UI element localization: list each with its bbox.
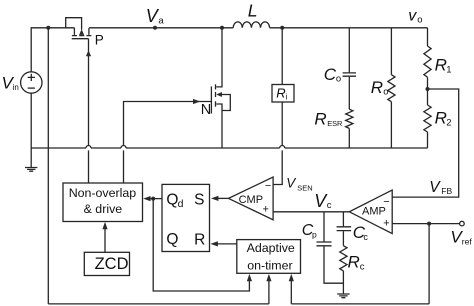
- svg-text:V: V: [429, 179, 441, 196]
- body arrow (points up, PMOS): [79, 29, 84, 35]
- svg-text:1: 1: [446, 65, 451, 76]
- svg-text:& drive: & drive: [84, 202, 123, 216]
- wire on-timer output to R with arrow: [213, 243, 237, 245]
- wire VFB from divider to AMP-: [392, 89, 459, 197]
- terminal Vref open circle: [460, 221, 465, 226]
- comparator CMP: [229, 177, 274, 220]
- svg-text:P: P: [95, 32, 104, 47]
- inductor L: [222, 22, 282, 28]
- svg-text:o: o: [336, 74, 341, 85]
- svg-text:Adaptive: Adaptive: [247, 241, 295, 255]
- svg-text:ESR: ESR: [327, 119, 342, 128]
- wire Vin loop bottom to on-timer: [48, 303, 269, 305]
- box ZCD: [84, 252, 129, 275]
- flip-flop box: [162, 184, 210, 251]
- op-amp AMP: [349, 190, 392, 234]
- wire long left feedback vertical: [47, 28, 49, 304]
- svg-text:p: p: [312, 229, 317, 239]
- svg-text:R: R: [371, 78, 383, 97]
- capacitor Cp: [323, 212, 325, 242]
- svg-text:R: R: [348, 252, 360, 271]
- wire P-drive into box: [88, 150, 90, 183]
- svg-text:R: R: [314, 109, 326, 128]
- capacitor Co: [348, 28, 350, 73]
- transistor P (PMOS): [66, 18, 104, 146]
- node Vref junction dot: [427, 222, 431, 226]
- svg-text:+: +: [383, 218, 389, 230]
- node Ri-top junction dot: [280, 26, 284, 30]
- svg-text:−: −: [265, 180, 271, 192]
- hop P-drive over rail: [86, 146, 91, 149]
- transistor N (NMOS): [201, 28, 231, 148]
- gate bar: [72, 38, 89, 40]
- box Non-overlap & drive: [63, 183, 143, 222]
- svg-text:Q: Q: [166, 231, 178, 248]
- gate drive arrow N: [193, 99, 200, 104]
- resistor R2: [424, 105, 431, 132]
- body hook from source wire: [66, 18, 82, 30]
- svg-text:i: i: [286, 93, 288, 102]
- ground rail: [31, 147, 86, 149]
- svg-text:o: o: [417, 14, 422, 25]
- svg-text:−: −: [383, 196, 389, 208]
- svg-text:FB: FB: [441, 186, 452, 196]
- resistor Ri (sense box): [281, 28, 283, 85]
- source lead down to ground rail: [216, 104, 222, 148]
- wire vo right branch: [427, 28, 429, 46]
- resistor Rc: [340, 246, 347, 271]
- svg-text:on-timer: on-timer: [247, 258, 292, 272]
- wire Va: PMOS drain to L: [89, 27, 222, 29]
- wire to vo corner: [282, 27, 427, 29]
- svg-text:L: L: [248, 0, 258, 20]
- capacitor Cc: [342, 212, 344, 227]
- wire Qd output to Non-overlap with arrow: [146, 198, 163, 200]
- wire Vref loop down to on-timer: [428, 224, 430, 304]
- ground under Rc: [337, 294, 349, 298]
- wire Ri to CMP- (VSEN) with hop over ground rail: [281, 102, 283, 146]
- svg-text:c: c: [360, 261, 365, 272]
- node Qd junction dot: [151, 197, 155, 201]
- gate lead down to driver with signal arrow up: [88, 39, 90, 146]
- svg-text:AMP: AMP: [362, 206, 386, 218]
- resistor R1: [424, 46, 431, 77]
- svg-text:S: S: [194, 192, 204, 209]
- body contact bar: [215, 92, 217, 97]
- body arrow (points into channel, NMOS): [216, 92, 222, 97]
- gate bar: [210, 86, 212, 113]
- svg-text:a: a: [158, 15, 164, 26]
- wire Vin- down to ground rail: [30, 93, 32, 167]
- node VFB divider dot: [426, 87, 430, 91]
- node L-left junction dot: [220, 26, 224, 30]
- wire CMP output to S with arrow: [214, 197, 229, 199]
- svg-text:ZCD: ZCD: [95, 255, 129, 273]
- wire N gate drive: [124, 102, 212, 146]
- source contact bar: [215, 101, 217, 106]
- svg-text:N: N: [201, 102, 211, 118]
- svg-text:R: R: [276, 86, 285, 101]
- box Adaptive on-timer: [237, 240, 301, 274]
- svg-text:R: R: [435, 56, 447, 75]
- svg-text:c: c: [327, 200, 332, 211]
- resistor Ro: [390, 28, 392, 75]
- wire Qd loop to on-timer: [153, 199, 249, 291]
- svg-text:SEN: SEN: [297, 184, 312, 193]
- source contact T: [72, 28, 77, 36]
- body contact bar: [79, 35, 84, 37]
- wire Vc: CMP+ to AMP tip: [273, 211, 349, 213]
- hop N-drive over rail: [121, 146, 126, 149]
- drain contact bar: [215, 84, 217, 89]
- wire N-drive into box: [123, 150, 125, 183]
- svg-text:C: C: [324, 65, 337, 84]
- voltage source Vin: [21, 72, 42, 93]
- svg-text:R: R: [435, 108, 447, 127]
- svg-text:2: 2: [446, 117, 451, 128]
- svg-text:+: +: [263, 204, 269, 216]
- body lead loop to source: [221, 95, 230, 111]
- wire ZCD to Non-overlap with up arrow: [104, 229, 106, 253]
- svg-text:ref: ref: [462, 236, 473, 246]
- svg-text:c: c: [363, 232, 368, 242]
- svg-text:v: v: [408, 8, 417, 25]
- wire AMP+ to Vref terminal: [392, 223, 459, 225]
- drain lead from Va junction: [216, 28, 222, 87]
- svg-text:o: o: [383, 87, 388, 98]
- svg-text:R: R: [194, 231, 205, 248]
- svg-text:CMP: CMP: [239, 194, 263, 206]
- node junction dot Vin+/feedback: [46, 26, 50, 30]
- resistor RESR: [346, 109, 353, 128]
- wire top rail left: Vin+ to PMOS source: [31, 28, 74, 72]
- svg-text:d: d: [178, 198, 184, 210]
- svg-text:in: in: [13, 83, 19, 92]
- svg-text:Non-overlap: Non-overlap: [69, 186, 137, 200]
- drain contact T: [86, 28, 91, 35]
- ground under Vin: [25, 168, 37, 172]
- node Va dot: [153, 26, 157, 30]
